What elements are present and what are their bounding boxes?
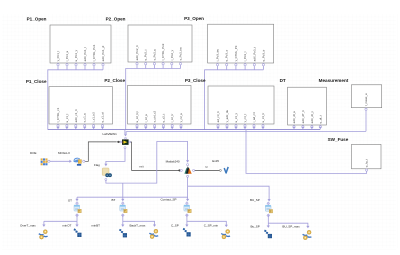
svg-text:i_c2_u: i_c2_u: [144, 113, 148, 122]
svg-text:u_Po1_y: u_Po1_y: [74, 49, 78, 61]
svg-text:y_CTRL_P3: y_CTRL_P3: [234, 45, 238, 61]
svg-text:BT: BT: [112, 198, 116, 202]
svg-text:Flag: Flag: [94, 163, 100, 167]
svg-text:BackT_max: BackT_max: [130, 224, 146, 228]
svg-text:i_Po3_tru: i_Po3_tru: [216, 49, 220, 62]
svg-text:adX_Po1_t: adX_Po1_t: [83, 47, 87, 62]
svg-text:P3_Close: P3_Close: [185, 78, 206, 83]
svg-text:y_Po2_tru: y_Po2_tru: [179, 47, 183, 61]
svg-text:LabVIEW1: LabVIEW1: [102, 132, 117, 136]
svg-text:adX_dt_u: adX_dt_u: [292, 111, 296, 124]
svg-text:P2_Open: P2_Open: [106, 17, 126, 22]
svg-text:Exit5: Exit5: [212, 159, 219, 163]
svg-text:i_ad_c3: i_ad_c3: [252, 112, 256, 123]
svg-text:u_c2_t: u_c2_t: [161, 114, 165, 123]
svg-text:y_c3_t: y_c3_t: [243, 114, 247, 123]
svg-text:adX_Po2_tr: adX_Po2_tr: [135, 45, 139, 60]
svg-text:DOE: DOE: [30, 151, 37, 155]
svg-text:u_Po3_tr: u_Po3_tr: [261, 50, 265, 62]
svg-text:y_c2_u: y_c2_u: [179, 113, 183, 123]
svg-text:y_Po2_u: y_Po2_u: [152, 49, 156, 61]
svg-text:P2_Close: P2_Close: [104, 78, 125, 83]
svg-text:exit: exit: [139, 165, 144, 169]
svg-text:adX_dT_tr: adX_dT_tr: [301, 110, 305, 124]
svg-text:P1_Open: P1_Open: [27, 17, 47, 22]
svg-text:DT: DT: [280, 78, 286, 83]
svg-text:minBT: minBT: [91, 224, 100, 228]
svg-text:adX_dt_y: adX_dt_y: [310, 111, 314, 124]
svg-text:u_dt_t: u_dt_t: [318, 115, 322, 123]
svg-text:Bu_SP: Bu_SP: [250, 224, 259, 228]
svg-text:Matlab240: Matlab240: [166, 159, 180, 163]
svg-text:u_c1_yt: u_c1_yt: [101, 112, 105, 122]
svg-text:Contact_SP: Contact_SP: [160, 197, 176, 201]
svg-text:t_CTRL_Po2: t_CTRL_Po2: [161, 43, 165, 60]
svg-text:u_fu_t: u_fu_t: [365, 159, 369, 167]
svg-text:u_Po3_y: u_Po3_y: [225, 49, 229, 61]
svg-text:Measurement: Measurement: [319, 78, 349, 83]
svg-text:y_Po1_t: y_Po1_t: [56, 51, 60, 62]
svg-text:P3_Open: P3_Open: [184, 16, 204, 21]
svg-text:OT: OT: [68, 198, 72, 202]
svg-text:i_c2_tr: i_c2_tr: [170, 114, 174, 123]
svg-text:i_c1_tr2: i_c1_tr2: [92, 112, 96, 123]
svg-text:C_SP: C_SP: [171, 224, 179, 228]
svg-text:BU_SP: BU_SP: [250, 198, 260, 202]
svg-text:t_meas_u: t_meas_u: [364, 93, 368, 106]
svg-text:i_Po3_t: i_Po3_t: [243, 51, 247, 61]
svg-text:u_Po2_t: u_Po2_t: [144, 49, 148, 60]
svg-text:ad_c3_tr: ad_c3_tr: [216, 111, 220, 122]
svg-text:OverT_max: OverT_max: [20, 224, 36, 228]
svg-text:i_Po2_y: i_Po2_y: [170, 49, 174, 60]
svg-text:adX_c1_tr: adX_c1_tr: [74, 109, 78, 122]
svg-text:y_c1_u: y_c1_u: [83, 113, 87, 123]
svg-text:u_c3_y: u_c3_y: [234, 113, 238, 123]
svg-text:BU_SP_max: BU_SP_max: [282, 224, 300, 228]
svg-text:P1_Close: P1_Close: [26, 79, 47, 84]
svg-text:SW_Fuse: SW_Fuse: [328, 137, 349, 142]
svg-text:u_c1_t: u_c1_t: [65, 114, 69, 123]
svg-text:t_CTRL_c1: t_CTRL_c1: [56, 107, 60, 122]
svg-text:C_SP_min: C_SP_min: [204, 224, 219, 228]
svg-text:adX_Po1_yt: adX_Po1_yt: [101, 45, 105, 61]
svg-text:MOGA-II: MOGA-II: [58, 151, 70, 155]
svg-text:adX_Po3_t: adX_Po3_t: [252, 47, 256, 62]
svg-text:t_CTRL_Po1: t_CTRL_Po1: [92, 44, 96, 61]
svg-text:u_c2_try: u_c2_try: [135, 111, 139, 123]
svg-text:u_c3_tr: u_c3_tr: [261, 113, 265, 123]
svg-text:M: M: [205, 165, 207, 169]
svg-text:i_Po1_u: i_Po1_u: [65, 50, 69, 61]
svg-text:y_ctrl_c2: y_ctrl_c2: [153, 110, 157, 122]
svg-text:minOT: minOT: [62, 224, 71, 228]
svg-text:y_adc_3u: y_adc_3u: [225, 109, 229, 122]
